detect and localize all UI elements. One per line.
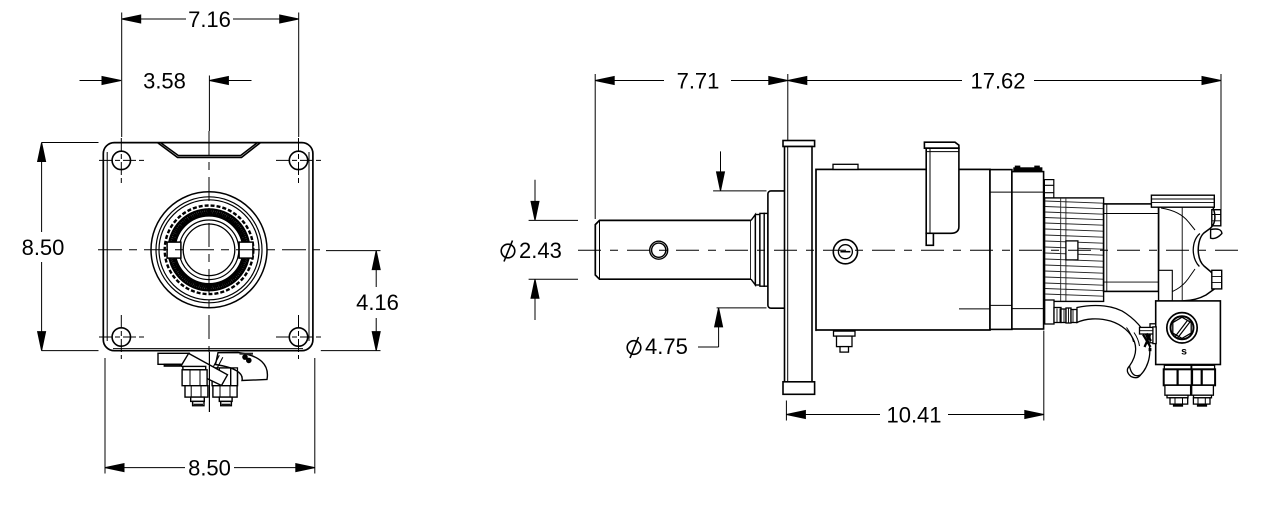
cover right bolt upper: [1212, 210, 1221, 226]
corner hole top-right: [276, 138, 321, 183]
cover top cap: [1151, 195, 1214, 207]
manifold port: [1167, 313, 1197, 343]
manifold bottom fittings: [1150, 324, 1215, 407]
manifold inlet fitting: [1140, 327, 1157, 351]
manifold left port fitting: [1150, 324, 1156, 343]
barrel joint line: [812, 169, 816, 331]
center bore concentric circles: [151, 192, 267, 308]
corner hole top-left: [99, 138, 144, 183]
drain elbow curved: [216, 353, 268, 381]
flange side view: [783, 141, 815, 395]
svg-text:8.50: 8.50: [188, 456, 231, 481]
knurled dark ring hatch: [168, 209, 249, 290]
dia symbol 4.75: [627, 337, 641, 358]
plate inner edge lines: [107, 152, 309, 349]
right gland hex: [212, 368, 237, 386]
dimension 8.50 left: [38, 143, 99, 351]
svg-text:4.75: 4.75: [645, 334, 688, 359]
svg-text:10.41: 10.41: [886, 403, 941, 428]
svg-text:8.50: 8.50: [22, 235, 65, 260]
top notch: [158, 143, 261, 158]
strap inner line: [926, 148, 959, 233]
drain elbow bolt dots: [240, 353, 254, 355]
motor ribbed section: [1045, 198, 1104, 302]
shaft flare: [751, 215, 755, 286]
plate outline: [103, 143, 313, 351]
horizontal centerline: [98, 249, 320, 251]
top clamp strap: [924, 142, 959, 245]
tab left: [167, 242, 181, 258]
svg-text:2.43: 2.43: [519, 238, 562, 263]
motor boss: [1066, 241, 1078, 260]
motor adapter block: [1012, 172, 1044, 329]
hose bands: [1127, 328, 1140, 347]
flange left face inner line: [787, 147, 789, 382]
dimension 7.16: [122, 13, 299, 138]
vertical centerline: [208, 131, 210, 352]
hose fitting hex: [1045, 300, 1054, 324]
dimension 10.41: [786, 331, 1043, 421]
shaft cross hole: [650, 241, 668, 259]
cover ear: [1211, 229, 1222, 239]
vertical centerline lower solid part: [208, 352, 210, 412]
hose tube: [1077, 306, 1150, 376]
motor bolt top: [1044, 180, 1053, 201]
svg-text:3.58: 3.58: [143, 69, 186, 94]
dimension 4.16: [321, 251, 381, 351]
adapter internal lines: [959, 192, 1044, 309]
svg-text:7.71: 7.71: [677, 69, 720, 94]
motor fins: [1045, 198, 1103, 301]
left lower nut: [1165, 385, 1191, 395]
right gland nut: [213, 386, 237, 397]
end cover casting: [1151, 195, 1222, 301]
svg-text:s: s: [1181, 346, 1187, 358]
manifold block: [1156, 301, 1221, 365]
hose assembly: [1045, 300, 1157, 378]
barrel ring section: [990, 170, 1012, 330]
cover lower boss: [1212, 270, 1222, 289]
right lower nut: [1192, 385, 1214, 395]
shaft end line: [599, 220, 601, 279]
svg-text:7.16: 7.16: [188, 7, 231, 32]
dimension 3.58: [80, 77, 252, 85]
hose end cap: [1127, 366, 1140, 378]
barrel bottom bolt: [834, 331, 856, 352]
svg-text:4.16: 4.16: [356, 290, 399, 315]
drain diagonal tube: [181, 353, 228, 385]
corner hole bottom-left: [99, 315, 144, 359]
right lower collar: [1192, 365, 1215, 369]
left lower hex: [1164, 369, 1192, 385]
tab right: [239, 242, 253, 258]
dimension 17.62: [788, 74, 1221, 224]
drain bracket: [158, 353, 189, 364]
end cap inner lines: [1104, 204, 1159, 292]
barrel body: [816, 169, 990, 330]
cover step box: [1159, 270, 1173, 301]
step rings: [755, 213, 768, 286]
right lower hex: [1192, 369, 1215, 385]
dimension dia 2.43: [529, 180, 578, 320]
adapter top dark cap: [1013, 167, 1042, 171]
bottom drain fitting assembly: [158, 353, 267, 406]
barrel port circle: [833, 240, 857, 264]
main centerline: [578, 249, 1240, 251]
motor end cap: [1104, 204, 1159, 292]
dia symbol 2.43: [501, 241, 515, 262]
shaft: [595, 220, 751, 279]
left lower collar: [1164, 365, 1191, 369]
corner hole bottom-right: [276, 315, 321, 359]
svg-text:17.62: 17.62: [970, 69, 1025, 94]
barrel top plug: [833, 164, 858, 169]
dimension 8.50 bottom: [105, 358, 315, 474]
left gland: [183, 366, 206, 369]
pilot hub (4.75 dia): [768, 191, 787, 308]
cover body profile: [1158, 207, 1160, 301]
hose swivel parts: [1054, 308, 1077, 324]
vertical centerline upper extension: [208, 76, 210, 132]
dimension dia 4.75: [698, 151, 767, 347]
dimension 7.71: [595, 74, 788, 219]
